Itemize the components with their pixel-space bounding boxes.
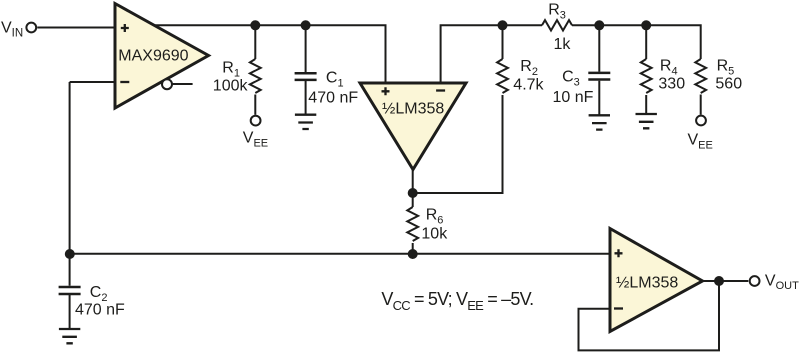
wire U2 - input up to rail (441, 25, 503, 83)
pin + of U2 (382, 87, 390, 95)
ground below C2 (59, 329, 80, 343)
resistor R3 (542, 20, 572, 30)
op-amp U2 half LM358 (360, 83, 466, 170)
wire R4 top (645, 25, 647, 59)
wire R2 bottom to U2 output node (413, 95, 503, 193)
node VOUT terminal (750, 276, 760, 286)
junction dot at R1 rail (250, 20, 260, 30)
junction dot at C1 rail (301, 20, 311, 30)
svg-text:1k: 1k (554, 36, 572, 53)
wire U3 feedback loop (579, 281, 720, 350)
svg-text:VOUT: VOUT (765, 272, 799, 292)
junction dot at C2 bus (65, 249, 75, 259)
svg-text:470 nF: 470 nF (308, 90, 358, 107)
wire C3 top (598, 25, 600, 71)
wire C2 bottom (69, 295, 71, 329)
resistor R2 (497, 59, 508, 93)
wire R5 bottom (700, 95, 702, 115)
op-amp U1 MAX9690 (115, 4, 209, 109)
resistor R6 (407, 207, 418, 241)
wire U3 output (703, 280, 749, 282)
pin + of U3 (615, 249, 623, 257)
svg-text:VEE: VEE (243, 129, 268, 149)
svg-text:100k: 100k (213, 77, 249, 94)
wire left vertical down to bottom bus (69, 82, 71, 254)
junction dot at R4 rail (641, 20, 651, 30)
capacitor C2 (59, 287, 81, 294)
svg-text:R5: R5 (717, 58, 735, 78)
junction dot at R6 bus (408, 249, 418, 259)
wire R4 node to R5 (646, 25, 701, 59)
wire R2 top (502, 25, 504, 59)
svg-text:R6: R6 (426, 207, 444, 227)
ground below C3 (589, 115, 610, 129)
wire comparator - input horizontal (70, 81, 115, 83)
svg-text:½LM358: ½LM358 (616, 275, 678, 292)
capacitor C3 (588, 73, 610, 80)
svg-text:470 nF: 470 nF (75, 301, 125, 318)
resistor R1 (250, 59, 261, 93)
svg-text:560: 560 (715, 76, 742, 93)
wire rail to R3 (503, 24, 543, 26)
svg-text:4.7k: 4.7k (513, 77, 544, 94)
svg-text:VIN: VIN (1, 19, 23, 39)
op-amp U3 half LM358 (610, 229, 703, 332)
resistor R5 (695, 59, 706, 93)
wire VIN to comparator + input (37, 27, 115, 29)
svg-text:10k: 10k (421, 226, 448, 243)
svg-text:VCC = 5V; VEE = –5V.: VCC = 5V; VEE = –5V. (381, 289, 533, 313)
junction dot at C3 rail (594, 20, 604, 30)
wire stub from bubble (172, 83, 192, 85)
svg-text:C3: C3 (562, 69, 580, 89)
junction dot at U2 output (408, 188, 418, 198)
wire bottom bus (70, 253, 610, 255)
pin - of U2 (436, 89, 445, 91)
svg-text:R4: R4 (660, 58, 678, 78)
wire C2 top (69, 254, 71, 286)
pin + of U1 (121, 24, 129, 32)
wire R6 bottom to bus (412, 243, 414, 254)
svg-text:R3: R3 (548, 1, 566, 21)
wire comparator output rail to middle op-amp + input (153, 25, 386, 83)
wire C1 top (305, 25, 307, 72)
svg-text:R2: R2 (520, 58, 538, 78)
pin - of U1 (120, 81, 129, 83)
pin - of U3 (614, 307, 623, 309)
wire R1 top (254, 25, 256, 59)
wire C3 bottom (598, 81, 600, 116)
ground below R4 (636, 114, 657, 128)
capacitor C1 (295, 73, 317, 80)
wire R1 bottom (254, 95, 256, 115)
svg-text:10 nF: 10 nF (553, 89, 594, 106)
wire U2 output to R6 (412, 170, 414, 208)
svg-text:MAX9690: MAX9690 (118, 47, 188, 64)
wire C3 node to R4 node (599, 24, 646, 26)
svg-text:VEE: VEE (688, 132, 713, 152)
svg-text:C1: C1 (326, 70, 344, 90)
ground below C1 (295, 115, 316, 129)
inverted output bubble of U1 (162, 79, 172, 89)
wire R4 bottom (645, 95, 647, 114)
wire R3 to C3 node (572, 24, 599, 26)
node VEE terminal of R5 (696, 116, 706, 126)
node VEE terminal of R1 (251, 116, 261, 126)
junction dot at U3 output (714, 276, 724, 286)
svg-text:½LM358: ½LM358 (382, 101, 444, 118)
node VIN terminal (26, 23, 36, 33)
junction dot at R2 rail (498, 20, 508, 30)
resistor R4 (641, 59, 652, 93)
svg-text:330: 330 (658, 76, 685, 93)
wire C1 bottom (305, 81, 307, 115)
